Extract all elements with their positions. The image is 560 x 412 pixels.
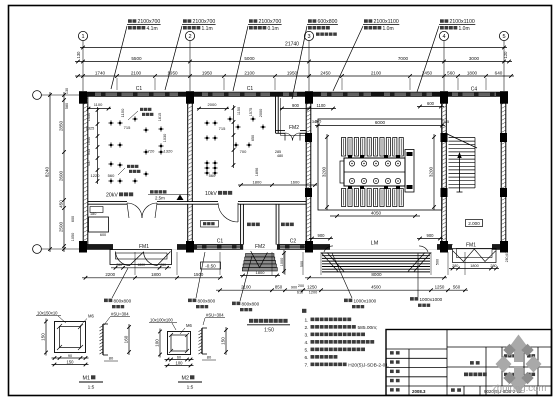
room label duty room <box>247 223 260 227</box>
svg-text:150: 150 <box>67 359 75 364</box>
svg-text:450: 450 <box>58 200 63 208</box>
porch FM1 left with double swing <box>110 250 172 266</box>
svg-text:M6: M6 <box>186 323 192 328</box>
porch FM1 right with zigzag doors <box>453 249 497 263</box>
svg-text:1250: 1250 <box>435 285 445 290</box>
svg-text:0.1m: 0.1m <box>268 26 279 32</box>
svg-text:1250: 1250 <box>307 285 317 290</box>
boxed label storage room <box>201 221 219 228</box>
note line 3 <box>305 332 366 338</box>
svg-text:1:50: 1:50 <box>264 328 274 334</box>
svg-text:3: 3 <box>307 34 310 40</box>
level mark corridor <box>90 207 103 213</box>
interior columns big room walls <box>305 133 312 142</box>
svg-text:2100: 2100 <box>131 70 142 75</box>
title block right cells text <box>504 354 535 376</box>
columns on axis line A bottom <box>79 241 87 253</box>
svg-text:7.: 7. <box>305 362 309 368</box>
vestibule wall horizontal <box>276 131 307 134</box>
equipment crosses 10kV room <box>204 120 209 125</box>
room label cable note 2.5m <box>148 190 190 200</box>
svg-text:4500: 4500 <box>371 285 381 290</box>
dim chain vertical room2 <box>232 105 236 168</box>
leader note hole 800x800 b <box>188 252 216 308</box>
title block middle drawing name <box>464 373 487 377</box>
grid axis circle 3 <box>304 31 313 91</box>
svg-text:130: 130 <box>65 88 69 94</box>
grid axis circle 5 <box>499 31 508 91</box>
detail M1 channel <box>100 324 109 355</box>
detail M2 anchor label <box>180 323 192 334</box>
svg-text:1150: 1150 <box>120 108 125 117</box>
columns on axis line B top <box>79 91 87 104</box>
detail M2 channel label <box>203 313 225 326</box>
axis-2 interior wall <box>188 96 193 202</box>
door 10kV room swing <box>218 203 238 222</box>
svg-text:1000: 1000 <box>280 258 284 266</box>
transformer small terminals <box>348 155 400 189</box>
bottom exterior wall <box>80 245 508 250</box>
svg-text:-0.50: -0.50 <box>205 263 216 268</box>
stair up arrow <box>457 152 463 192</box>
svg-text:600: 600 <box>100 233 106 237</box>
room label 20kV switchgear <box>106 192 133 198</box>
note line 5 <box>305 347 366 353</box>
svg-text:1050: 1050 <box>71 233 75 241</box>
svg-text:1950: 1950 <box>287 70 298 75</box>
svg-text:800x800: 800x800 <box>198 299 216 304</box>
svg-text:1000x1000: 1000x1000 <box>354 299 377 304</box>
transformer radiator fins top <box>342 138 404 157</box>
dim 3200 left vertical <box>325 134 329 210</box>
svg-text:3000: 3000 <box>469 56 480 61</box>
svg-text:4: 4 <box>442 34 445 40</box>
svg-text:345: 345 <box>443 120 449 124</box>
title block verticals <box>409 330 538 396</box>
svg-text:1615: 1615 <box>158 113 162 121</box>
svg-text:8240: 8240 <box>44 166 49 177</box>
svg-text:2008.3: 2008.3 <box>412 389 426 394</box>
equipment crosses 20kV room <box>108 120 113 125</box>
svg-text:500: 500 <box>300 261 304 267</box>
title block left labels <box>390 351 400 354</box>
grounding leader label room1 b <box>118 165 140 175</box>
transformer radiator fins bottom <box>342 189 404 207</box>
svg-text:2600: 2600 <box>58 170 63 181</box>
ramp LM hatch <box>321 253 431 272</box>
svg-text:1950: 1950 <box>202 70 213 75</box>
svg-text:4050: 4050 <box>371 210 382 215</box>
svg-text:1896: 1896 <box>255 168 259 176</box>
svg-text:280: 280 <box>452 264 458 268</box>
svg-text:1040: 1040 <box>87 137 91 145</box>
svg-text:2450: 2450 <box>422 70 433 75</box>
room label 10kV switchgear <box>205 191 232 197</box>
svg-text:80: 80 <box>109 356 114 361</box>
notes block <box>302 309 306 313</box>
transformer center rail <box>344 171 405 173</box>
drawing title plan 1:50 <box>247 319 290 334</box>
svg-text:5: 5 <box>502 34 505 40</box>
svg-text:150: 150 <box>221 337 226 345</box>
svg-text:#SU=304: #SU=304 <box>206 313 224 318</box>
svg-text:80: 80 <box>207 355 212 360</box>
svg-text:1.0m: 1.0m <box>383 26 394 32</box>
dim 3200 right vertical <box>432 134 436 210</box>
svg-text:C4: C4 <box>471 87 478 93</box>
svg-text:1800: 1800 <box>256 270 266 275</box>
dim 900 left of LM <box>309 237 333 241</box>
leader note hole-reserve group 4 <box>292 19 338 99</box>
leader note hole 1000x1000 left <box>332 253 377 308</box>
title block gongzhong label <box>470 361 480 365</box>
svg-text:280: 280 <box>490 264 496 268</box>
svg-text:1320: 1320 <box>164 149 174 154</box>
svg-text:1800: 1800 <box>470 264 478 268</box>
right exterior wall <box>501 96 506 252</box>
svg-text:130: 130 <box>76 51 81 59</box>
dim tier bottom-left 1 <box>82 276 223 280</box>
svg-text:280: 280 <box>160 263 166 267</box>
svg-text:1.1m: 1.1m <box>202 26 213 32</box>
dim short vestibule <box>280 107 336 111</box>
detail M1 channel dims <box>127 324 131 355</box>
svg-text:650: 650 <box>251 135 255 141</box>
svg-text:FM2: FM2 <box>255 244 265 250</box>
svg-text:1800: 1800 <box>253 180 263 185</box>
svg-text:150: 150 <box>41 333 46 341</box>
interior partition wall horizontal <box>88 201 306 204</box>
level mark -0.50 <box>201 262 221 269</box>
svg-text:zhulong.com: zhulong.com <box>492 383 546 394</box>
grid axis circle A left <box>33 245 80 254</box>
dimension tier spans <box>75 60 512 64</box>
leader note hole-reserve group 1 <box>111 19 161 89</box>
stair treads <box>449 138 476 189</box>
svg-text:480: 480 <box>277 154 283 158</box>
svg-text:280,60: 280,60 <box>505 252 509 262</box>
title block outer <box>386 330 552 396</box>
leader note hole 800x800 a <box>104 268 132 308</box>
transformer bushings top row <box>349 161 400 166</box>
detail M2 dims <box>158 329 162 358</box>
svg-text:4.1m: 4.1m <box>147 26 158 32</box>
detail M2 title <box>178 375 202 390</box>
svg-text:1200: 1200 <box>309 291 317 295</box>
svg-text:C1: C1 <box>217 239 224 245</box>
svg-text:2450: 2450 <box>320 70 331 75</box>
svg-text:1.: 1. <box>305 317 309 323</box>
svg-text:437: 437 <box>87 160 91 166</box>
dimension extension lines top tier <box>117 78 486 90</box>
dim tier ramp 4500 <box>298 288 468 292</box>
svg-text:100: 100 <box>155 339 160 347</box>
note line 1 <box>305 317 352 323</box>
dimension left detail chain <box>62 92 66 252</box>
svg-text:1600: 1600 <box>291 180 301 185</box>
svg-text:3200: 3200 <box>429 166 434 177</box>
note line 6 <box>305 355 338 361</box>
room label guard room <box>281 223 294 227</box>
svg-text:2100: 2100 <box>241 285 251 290</box>
leader note hole 800x800 c <box>232 256 260 311</box>
svg-text:715: 715 <box>219 126 226 131</box>
svg-text:900: 900 <box>318 233 326 238</box>
stair break line diagonal <box>445 133 477 148</box>
svg-text:800x800: 800x800 <box>114 299 132 304</box>
svg-text:1030: 1030 <box>163 134 167 142</box>
svg-text:1800: 1800 <box>137 263 145 267</box>
svg-text:1:5: 1:5 <box>88 385 95 391</box>
dim stub room2 below wall <box>197 107 229 111</box>
svg-text:1: 1 <box>81 34 84 40</box>
dim 900 right of LM <box>417 237 443 241</box>
svg-text:1.0m: 1.0m <box>459 26 470 32</box>
svg-text:21740: 21740 <box>285 42 299 48</box>
svg-text:2100: 2100 <box>371 70 382 75</box>
dim 600 below wall big room right <box>417 105 444 109</box>
svg-text:943: 943 <box>87 149 91 155</box>
svg-text:90: 90 <box>68 354 72 358</box>
svg-text:5000: 5000 <box>244 56 255 61</box>
dim steps FM2 <box>240 274 280 278</box>
svg-text:120: 120 <box>503 51 508 59</box>
svg-text:1100: 1100 <box>94 102 103 107</box>
equipment boundary rect big room <box>318 119 442 210</box>
detail M1 square plate <box>55 322 86 353</box>
svg-text:FM2: FM2 <box>289 125 299 131</box>
grid axis circle 4 <box>439 31 448 91</box>
dim chain vertical room1 <box>96 107 100 184</box>
svg-text:600: 600 <box>71 216 75 222</box>
door 20kV room double swing <box>127 203 157 218</box>
marker triangle cable room <box>177 195 184 201</box>
svg-text:2100: 2100 <box>244 70 255 75</box>
dim 4050 below equipment <box>330 214 420 218</box>
svg-text:5500: 5500 <box>131 56 142 61</box>
detail M1 anchor label <box>80 314 94 327</box>
svg-text:1:5: 1:5 <box>187 385 194 391</box>
svg-text:5.: 5. <box>305 347 309 353</box>
svg-text:2500: 2500 <box>58 221 63 232</box>
dimension tier overall 21740 <box>80 46 507 50</box>
detail M1 plate label <box>36 311 66 324</box>
left exterior wall <box>83 96 88 245</box>
svg-text:160: 160 <box>124 335 129 343</box>
svg-text:1575: 1575 <box>249 108 253 116</box>
svg-text:560: 560 <box>209 173 216 178</box>
svg-text:2000: 2000 <box>259 109 263 117</box>
svg-text:10x150x10: 10x150x10 <box>37 311 58 316</box>
dimension extension lines bottom <box>135 252 465 275</box>
svg-text:800x800: 800x800 <box>242 302 260 307</box>
svg-text:280: 280 <box>116 263 122 267</box>
svg-text:2850: 2850 <box>58 120 63 131</box>
svg-text:6000: 6000 <box>375 120 386 125</box>
dimension left overall 8240 <box>48 92 52 252</box>
svg-text:1100: 1100 <box>316 103 326 108</box>
note line 2 <box>305 325 378 331</box>
detail M2 plate label <box>149 318 177 331</box>
svg-text:7000: 7000 <box>398 56 409 61</box>
svg-text:715: 715 <box>124 125 131 130</box>
svg-text:1800: 1800 <box>467 70 478 75</box>
svg-text:6.: 6. <box>305 355 309 361</box>
svg-text:20kV: 20kV <box>106 193 118 199</box>
svg-text:#SU=304: #SU=304 <box>111 312 129 317</box>
svg-text:500: 500 <box>436 259 440 265</box>
door FM2 vestibule swing <box>285 133 300 141</box>
svg-text:1220: 1220 <box>91 173 101 178</box>
transformer main body <box>340 158 405 186</box>
svg-text:1325: 1325 <box>86 127 94 131</box>
svg-text:3200: 3200 <box>322 166 327 177</box>
svg-text:200: 200 <box>298 284 304 288</box>
title block tuhao label <box>451 388 461 392</box>
detail M2 channel <box>199 328 208 354</box>
grid axis circle 1 <box>78 31 87 91</box>
svg-text:1800: 1800 <box>151 272 161 277</box>
svg-text:2200: 2200 <box>105 272 115 277</box>
svg-text:700: 700 <box>240 149 247 154</box>
svg-text:1150: 1150 <box>237 107 241 115</box>
transformer side box <box>405 150 414 193</box>
svg-text:560: 560 <box>453 285 461 290</box>
dim 8000 ramp <box>305 276 447 280</box>
svg-text:720: 720 <box>148 149 155 154</box>
note line 7 <box>305 362 390 368</box>
steps FM2 bottom <box>242 251 277 271</box>
svg-text:10x100x100: 10x100x100 <box>150 318 173 323</box>
leader note hole 1000x1000 right <box>410 253 443 307</box>
watermark logo zhulong pinwheel <box>496 335 542 394</box>
detail M1 title <box>79 375 103 390</box>
svg-text:60: 60 <box>177 355 181 359</box>
note line 4 <box>305 340 375 346</box>
level mark 2.000 stair hall <box>466 220 483 227</box>
svg-text:2.: 2. <box>305 325 309 331</box>
leader note hole-reserve group 6 <box>417 19 475 92</box>
grounding leader label room1 a <box>128 108 153 120</box>
svg-text:1740: 1740 <box>95 70 106 75</box>
dim 1000 right of steps <box>282 250 286 274</box>
svg-text:8000: 8000 <box>371 272 382 277</box>
svg-text:850: 850 <box>275 285 283 290</box>
cabinet rectangle corridor <box>89 217 109 232</box>
svg-text:M6: M6 <box>88 314 94 319</box>
leader note hole-reserve group 3 <box>233 19 282 91</box>
svg-text:600: 600 <box>427 101 435 106</box>
top exterior wall <box>80 92 508 96</box>
partition wall rooms bottom middle <box>241 204 279 245</box>
vestibule wall vertical <box>276 96 279 133</box>
detail M1 dims <box>44 319 48 356</box>
dimension tier detail top <box>75 74 514 78</box>
svg-text:585.00m;: 585.00m; <box>358 325 378 331</box>
axis-3 interior wall <box>306 96 311 245</box>
svg-text:4.: 4. <box>305 340 309 346</box>
door openings white covers bottom wall <box>113 244 492 250</box>
dim porch FM1 left <box>111 266 171 270</box>
dim stub room1 below wall <box>87 107 111 111</box>
svg-text:1000x1000: 1000x1000 <box>420 297 443 302</box>
vestibule inner corner lines <box>281 98 307 136</box>
dim 6000 inside room <box>315 124 445 128</box>
svg-text:560: 560 <box>108 173 115 178</box>
leader note hole-reserve group 5 <box>333 19 399 91</box>
transformer bushings bottom row <box>349 178 400 183</box>
svg-text:10kV: 10kV <box>205 191 217 197</box>
svg-text:C1: C1 <box>247 86 254 92</box>
svg-text:2000: 2000 <box>208 102 218 107</box>
title block horizontals <box>386 347 552 386</box>
grid axis circle 2 <box>185 31 194 91</box>
svg-text:2.5m: 2.5m <box>155 196 165 201</box>
svg-text:900: 900 <box>427 233 435 238</box>
dim line rooms bottom <box>238 183 317 187</box>
svg-text:H20(5)J-SDB-2-01.: H20(5)J-SDB-2-01. <box>348 362 389 368</box>
leader note hole-reserve group 2 <box>165 19 216 90</box>
svg-text:C2: C2 <box>290 239 297 245</box>
grid axis circle B left <box>33 91 80 100</box>
axis-4 interior wall <box>442 96 447 245</box>
svg-text:2: 2 <box>188 34 191 40</box>
detail M1 channel label <box>104 312 130 326</box>
door LM leaf marks <box>324 246 428 252</box>
detail M2 channel dims <box>224 327 228 355</box>
svg-text:345: 345 <box>312 120 318 124</box>
detail M2 square plate <box>168 332 191 355</box>
svg-text:900: 900 <box>292 103 300 108</box>
svg-text:M1: M1 <box>83 376 91 382</box>
svg-text:LM: LM <box>371 241 379 247</box>
svg-text:100: 100 <box>176 360 184 365</box>
dim tier bottom-left 2 <box>216 288 306 292</box>
svg-text:C1: C1 <box>136 86 143 92</box>
svg-text:3.: 3. <box>305 332 309 338</box>
svg-text:M2: M2 <box>182 376 190 382</box>
svg-text:580: 580 <box>65 103 69 109</box>
svg-text:640: 640 <box>495 70 503 75</box>
svg-text:1500: 1500 <box>194 272 204 277</box>
svg-text:900: 900 <box>291 285 297 289</box>
svg-text:1450: 1450 <box>87 113 91 121</box>
svg-text:610: 610 <box>297 291 303 295</box>
svg-text:FM1: FM1 <box>466 243 476 249</box>
dim porch FM1 right <box>449 267 499 271</box>
svg-text:560: 560 <box>447 70 455 75</box>
svg-text:1950: 1950 <box>167 70 178 75</box>
svg-text:2.000: 2.000 <box>468 221 480 226</box>
